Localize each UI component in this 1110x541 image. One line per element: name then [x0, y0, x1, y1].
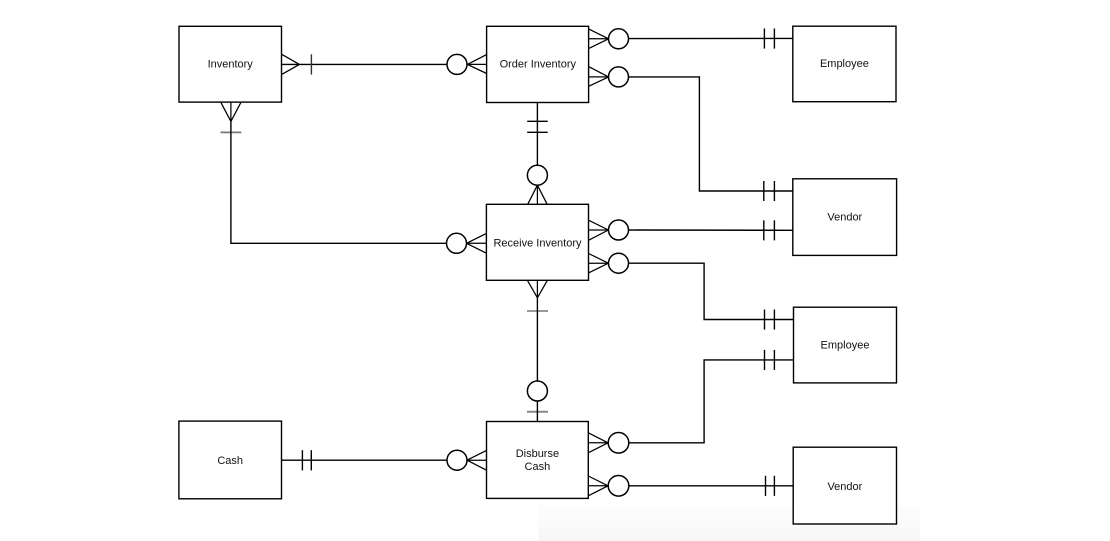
svg-text:Vendor: Vendor: [827, 212, 862, 224]
double tick (Employee lower bottom): [765, 350, 775, 370]
crow's foot at Receive Inventory right upper: [589, 220, 609, 240]
circle optional (Order Inventory right upper): [609, 29, 629, 49]
svg-text:Vendor: Vendor: [827, 481, 862, 493]
wire Disburse Cash to Vendor bottom: [629, 485, 793, 487]
crow's foot at Order Inventory left: [467, 55, 487, 74]
entity Inventory: [179, 26, 282, 102]
svg-text:Cash: Cash: [217, 455, 243, 467]
svg-text:Cash: Cash: [525, 461, 551, 473]
double tick (Vendor bottom): [766, 476, 775, 496]
crow's foot at Receive Inventory left: [466, 233, 486, 253]
crow's foot at Disburse Cash right upper: [588, 433, 608, 453]
entity Disburse Cash: [487, 422, 589, 499]
entity Employee (lower): [794, 307, 897, 383]
entity Order Inventory: [487, 26, 589, 102]
entity Receive Inventory: [486, 204, 588, 280]
wire Receive Inventory down to Disburse Cash: [536, 298, 538, 381]
double tick (Vendor middle lower): [764, 220, 775, 240]
crow's foot at Disburse Cash right lower: [588, 476, 608, 496]
entity Employee (top): [793, 26, 896, 102]
crow's foot at Order Inventory right upper: [589, 29, 609, 49]
wire Order Inventory to Vendor middle: [629, 77, 793, 191]
entity Vendor (middle): [793, 179, 897, 256]
double tick (Employee top): [764, 29, 774, 49]
crow's foot at Receive Inventory bottom: [527, 280, 547, 298]
wire Cash to Disburse Cash: [282, 459, 448, 461]
tick one (below Receive Inventory): [527, 310, 548, 312]
wire Disburse Cash to Employee lower: [629, 360, 794, 443]
svg-text:Employee: Employee: [821, 339, 870, 351]
double tick (Vendor middle upper): [764, 181, 775, 201]
entity Cash: [179, 421, 282, 499]
wire circle to Disburse Cash top: [536, 401, 538, 422]
double tick (below Order Inventory): [527, 121, 548, 132]
svg-text:Receive Inventory: Receive Inventory: [493, 237, 582, 249]
circle optional (Disburse Cash top): [527, 381, 547, 401]
circle optional (Disburse Cash left): [447, 450, 467, 470]
entity Vendor (bottom): [793, 447, 896, 524]
circle optional (Order Inventory right lower): [609, 67, 629, 87]
wire Order Inventory down to Receive Inventory: [536, 103, 538, 166]
svg-text:Disburse: Disburse: [516, 448, 559, 460]
tick one (Inventory right): [310, 54, 312, 74]
tick one (below Inventory): [221, 131, 242, 133]
wire Order Inventory to Employee top: [629, 37, 793, 39]
circle optional (Disburse Cash right upper): [608, 433, 629, 454]
crow's foot at Order Inventory right lower: [589, 67, 609, 87]
crow's foot at Inventory bottom: [221, 102, 241, 121]
circle optional (Receive Inventory left): [447, 233, 467, 253]
tick one (above Disburse Cash): [527, 411, 548, 413]
crow's foot at Receive Inventory right lower: [589, 254, 609, 273]
svg-text:Inventory: Inventory: [208, 58, 254, 70]
double tick (Employee lower upper): [765, 310, 775, 330]
circle optional (Receive Inventory right lower): [609, 253, 629, 273]
double tick (Cash right): [302, 450, 311, 470]
crow's foot at Receive Inventory top: [528, 185, 548, 204]
crow's foot at Inventory right: [282, 54, 300, 74]
svg-text:Employee: Employee: [820, 58, 869, 70]
wire Inventory down to Receive Inventory left: [231, 121, 447, 243]
crow's foot at Disburse Cash left: [467, 450, 487, 470]
circle optional (Order Inventory left): [447, 54, 467, 74]
svg-text:Order Inventory: Order Inventory: [500, 58, 577, 70]
wire Receive Inventory to Employee lower: [629, 263, 794, 319]
wire Inventory to Order Inventory: [282, 63, 448, 65]
circle optional (Receive Inventory right upper): [609, 220, 629, 240]
circle optional (Disburse Cash right lower): [608, 476, 629, 497]
wire Receive Inventory to Vendor middle: [629, 229, 793, 231]
circle optional (Receive Inventory top): [527, 165, 547, 185]
